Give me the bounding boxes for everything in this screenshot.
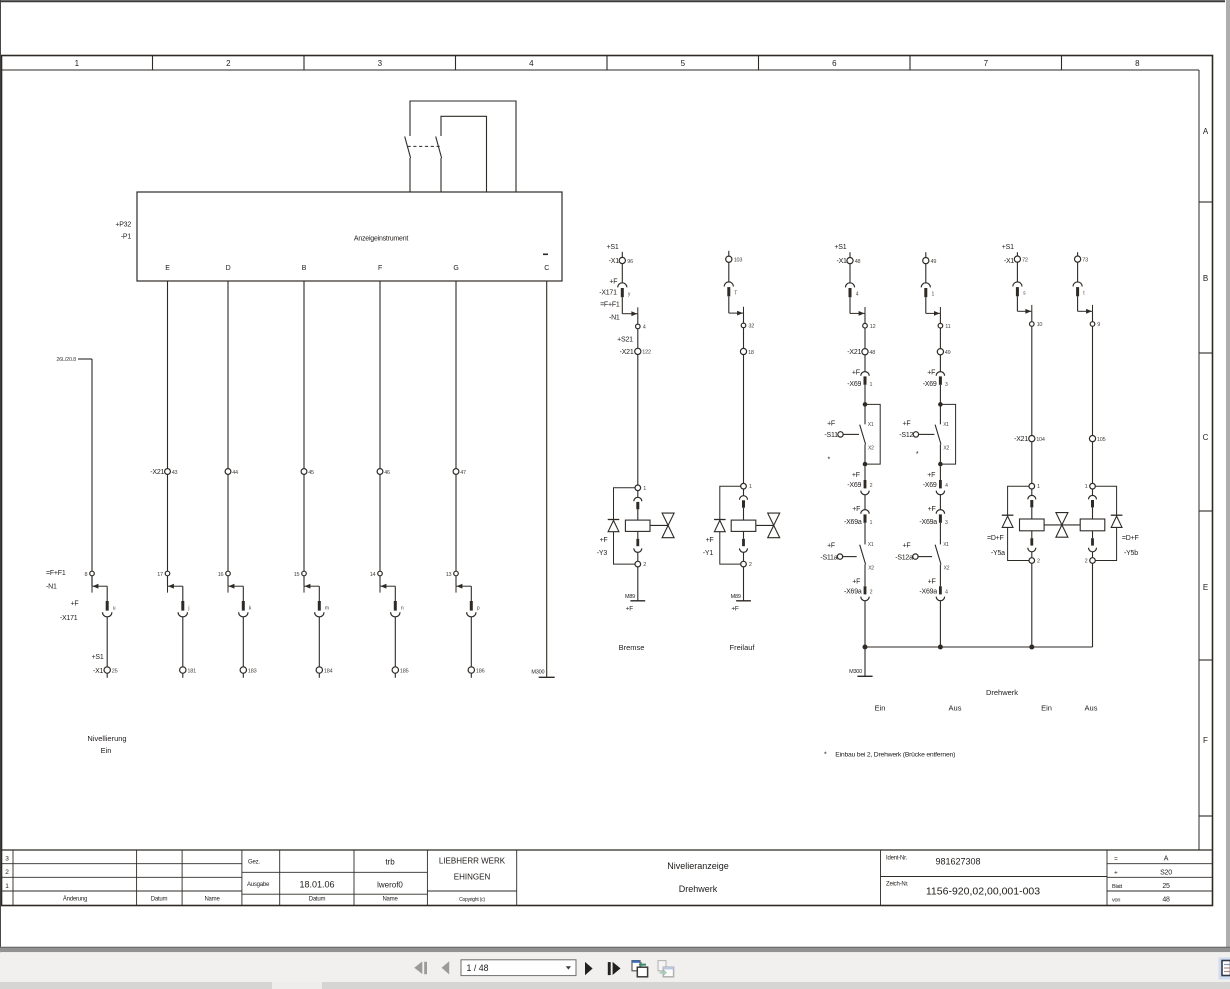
svg-text:trb: trb bbox=[385, 858, 395, 867]
coil connector bottom -Y5b bbox=[1089, 531, 1097, 558]
svg-text:+F: +F bbox=[902, 420, 910, 427]
nav last-page button bbox=[608, 962, 621, 975]
svg-text:-Y1: -Y1 bbox=[703, 550, 714, 557]
svg-text:G: G bbox=[453, 265, 458, 272]
node circle 14 bbox=[370, 571, 383, 578]
wire junction to contact -S11 bbox=[864, 404, 866, 424]
terminal -X1:181 bbox=[180, 667, 196, 675]
connector -X69 pin 2 bbox=[861, 480, 869, 495]
terminal -X1:72 bbox=[1014, 256, 1028, 264]
label +S1 -X1 column -Y5a bbox=[1002, 244, 1015, 265]
svg-text:103: 103 bbox=[734, 258, 743, 264]
diode branch wire Freilauf bbox=[720, 486, 741, 564]
wire instrument C to M300 bbox=[546, 281, 548, 677]
label +F -Y1 bbox=[703, 537, 714, 557]
svg-text:=: = bbox=[1114, 856, 1118, 863]
wire jog arrow column -Y5b bbox=[1078, 305, 1093, 314]
connector -X171 pin y Bremse bbox=[618, 283, 627, 297]
svg-text:+F: +F bbox=[902, 543, 910, 550]
svg-text:1 / 48: 1 / 48 bbox=[467, 963, 489, 973]
wire connector to junction -S12 bbox=[939, 385, 941, 403]
svg-text:3: 3 bbox=[5, 856, 9, 863]
svg-text:2: 2 bbox=[643, 562, 646, 568]
wire from instrument to terminal -X21:47 bbox=[455, 281, 457, 469]
svg-text:+F: +F bbox=[927, 370, 935, 377]
svg-text:-N1: -N1 bbox=[609, 315, 620, 322]
wire terminal 105 to coil 1 bbox=[1092, 442, 1094, 484]
svg-text:-X21: -X21 bbox=[1014, 436, 1028, 443]
svg-text:13: 13 bbox=[446, 572, 452, 578]
svg-text:-P1: -P1 bbox=[121, 234, 132, 241]
wire terminal 49 to connector bbox=[925, 264, 927, 283]
svg-text:=D+F: =D+F bbox=[1122, 535, 1139, 542]
wire jog to node 9 bbox=[1092, 311, 1094, 322]
wire coil 2 to rail -Y5a bbox=[1031, 563, 1033, 647]
svg-text:3: 3 bbox=[378, 59, 383, 68]
label +F -X69 lower -S11 bbox=[847, 472, 861, 489]
svg-text:96: 96 bbox=[627, 259, 633, 265]
wire from instrument to terminal -X21:44 bbox=[227, 281, 229, 469]
row labels A B C E F bbox=[1203, 127, 1209, 745]
svg-text:Ausgabe: Ausgabe bbox=[247, 882, 270, 888]
junction dot rail S12a bbox=[938, 645, 943, 650]
connector -X69 pin 1 bbox=[861, 372, 869, 385]
wire jog to connector -X171:m bbox=[318, 586, 320, 601]
right subtable = A bbox=[1114, 856, 1169, 863]
svg-text:18.01.06: 18.01.06 bbox=[299, 880, 334, 890]
svg-text:Gez.: Gez. bbox=[248, 860, 260, 866]
svg-text:u: u bbox=[113, 606, 116, 612]
svg-text:-X1: -X1 bbox=[609, 258, 620, 265]
page number combo box bbox=[461, 960, 576, 976]
svg-text:-Y3: -Y3 bbox=[597, 550, 608, 557]
previous-view icon bbox=[632, 960, 648, 976]
nav first-page button bbox=[414, 961, 427, 974]
right subtable Blatt 25 bbox=[1112, 883, 1170, 890]
connector -X69a pin 3 bbox=[936, 510, 944, 523]
diode V3 Bremse bbox=[608, 520, 620, 532]
common rail wire Drehwerk bbox=[865, 646, 1093, 648]
svg-text:8: 8 bbox=[85, 572, 88, 578]
ground M89 Bremse bbox=[625, 594, 645, 612]
connector -X171 pin k bbox=[239, 601, 248, 617]
svg-text:Änderung: Änderung bbox=[63, 896, 87, 903]
svg-text:183: 183 bbox=[248, 669, 257, 675]
valve symbol Freilauf bbox=[768, 513, 780, 538]
label +F -X171 Bremse bbox=[599, 278, 617, 296]
svg-text:1: 1 bbox=[1085, 484, 1088, 490]
svg-text:32: 32 bbox=[748, 324, 754, 330]
ground M89 Freilauf bbox=[731, 594, 751, 612]
svg-text:Ein: Ein bbox=[1041, 703, 1052, 712]
svg-text:-S11: -S11 bbox=[824, 432, 838, 439]
svg-text:105: 105 bbox=[1097, 437, 1106, 443]
wire node 4 to -X21:122 bbox=[637, 329, 639, 349]
diode V -Y5a bbox=[1002, 515, 1014, 527]
svg-text:X1: X1 bbox=[943, 422, 949, 428]
svg-text:186: 186 bbox=[476, 669, 485, 675]
wire node 15 to jog bbox=[303, 576, 305, 586]
svg-text:Nivelieranzeige: Nivelieranzeige bbox=[667, 861, 729, 871]
connector -X171 pin s column -Y5a bbox=[1013, 282, 1022, 296]
svg-text:17: 17 bbox=[157, 572, 163, 578]
node circle 1 -Y5b bbox=[1085, 483, 1096, 490]
svg-text:p: p bbox=[477, 606, 480, 612]
svg-text:48: 48 bbox=[855, 259, 861, 265]
svg-text:j: j bbox=[187, 606, 189, 612]
node circle 2 Freilauf bbox=[741, 561, 752, 568]
svg-text:A: A bbox=[1164, 856, 1169, 863]
svg-text:12: 12 bbox=[870, 324, 876, 330]
wire stub above -X1:103 bbox=[728, 251, 730, 256]
svg-text:72: 72 bbox=[1022, 258, 1028, 264]
svg-text:14: 14 bbox=[370, 572, 376, 578]
svg-text:=F+F1: =F+F1 bbox=[46, 570, 66, 577]
terminal -X21:46 bbox=[377, 469, 390, 476]
left window border line bbox=[0, 0, 2, 989]
connector -X171 pin 1 column -S12 bbox=[921, 283, 930, 297]
valve symbol Drehwerk bbox=[1056, 513, 1068, 538]
switch contact -S12a bbox=[935, 545, 941, 565]
wire -X1:103 to connector -X171:T bbox=[728, 262, 730, 282]
svg-text:2: 2 bbox=[1037, 559, 1040, 565]
wire jog to connector -X171:p bbox=[470, 586, 472, 601]
svg-text:=F+F1: =F+F1 bbox=[600, 302, 620, 309]
svg-text:25: 25 bbox=[1162, 883, 1170, 890]
connector -X69 pin 4 bbox=[936, 480, 944, 495]
wire to connector -X69a:3 bbox=[939, 495, 941, 510]
wire connector to terminal -X1:181 bbox=[182, 617, 184, 667]
svg-text:E: E bbox=[1203, 583, 1208, 592]
wire connector to junction -S11 bbox=[864, 385, 866, 403]
junction dot upper -S12 bbox=[938, 402, 943, 407]
svg-text:+S1: +S1 bbox=[834, 244, 846, 251]
svg-text:Datum: Datum bbox=[309, 897, 326, 903]
wire jog arrow column -S11 bbox=[850, 307, 865, 316]
title block headers Aenderung Datum Name bbox=[63, 896, 221, 903]
diode V -Y5b bbox=[1111, 515, 1123, 527]
svg-text:Zeich-Nr.: Zeich-Nr. bbox=[886, 882, 909, 888]
svg-text:-X21: -X21 bbox=[847, 349, 861, 356]
junction dot lower -S11 bbox=[863, 462, 868, 467]
svg-text:104: 104 bbox=[1036, 437, 1045, 443]
wire jog to node 32 bbox=[743, 313, 745, 323]
terminal -X1:49 bbox=[923, 258, 937, 266]
svg-text:+F: +F bbox=[852, 578, 860, 585]
coil connector top Freilauf bbox=[740, 489, 748, 520]
wire coil to valve Bremse bbox=[650, 524, 668, 526]
terminal -X1:25 bbox=[104, 667, 118, 675]
coil connector top -Y5a bbox=[1028, 489, 1036, 519]
right subtable + S20 bbox=[1114, 870, 1172, 877]
node circle 2 -Y5a bbox=[1029, 558, 1040, 565]
svg-text:1: 1 bbox=[5, 883, 9, 890]
terminal -X21:18 bbox=[740, 348, 754, 355]
label +F -X69a upper -S11a bbox=[844, 506, 862, 526]
svg-text:4: 4 bbox=[529, 59, 534, 68]
wire terminal 18 to coil Freilauf bbox=[743, 355, 745, 484]
svg-text:181: 181 bbox=[187, 669, 196, 675]
wire junction to contact -S12 bbox=[939, 404, 941, 424]
terminal -X1:73 bbox=[1075, 256, 1089, 264]
wire stub below -X1:183 bbox=[242, 673, 244, 678]
wire contact to connector -X69a:2 bbox=[864, 564, 866, 586]
svg-text:8: 8 bbox=[1135, 59, 1140, 68]
wire connector to jog column -Y5a bbox=[1016, 296, 1018, 311]
svg-text:+F: +F bbox=[927, 472, 935, 479]
wire -X21:46 to node 14 bbox=[379, 474, 381, 571]
svg-text:+S1: +S1 bbox=[92, 654, 104, 661]
instrument U1 Anzeigeinstrument box bbox=[137, 192, 562, 281]
title block Gez Ausgabe labels bbox=[247, 860, 270, 889]
switch contact S-b above instrument bbox=[436, 137, 442, 193]
svg-text:-X69: -X69 bbox=[847, 482, 861, 489]
wire connector to jog Freilauf bbox=[728, 296, 730, 313]
svg-text:F: F bbox=[378, 265, 382, 272]
wire stub above -X1:96 bbox=[621, 252, 623, 257]
terminal -X21:104 bbox=[1029, 436, 1045, 444]
switch contact S-a above instrument bbox=[405, 137, 411, 193]
svg-text:+S1: +S1 bbox=[607, 244, 619, 251]
svg-text:Aus: Aus bbox=[1085, 703, 1098, 712]
svg-text:Blatt: Blatt bbox=[1112, 884, 1123, 890]
label =D+F -Y5a bbox=[987, 535, 1005, 557]
viewer right scrollbar strip bbox=[1226, 0, 1230, 950]
wire node 12 to terminal -X21:48 bbox=[864, 328, 866, 349]
svg-text:-X171: -X171 bbox=[60, 615, 78, 622]
svg-text:M300: M300 bbox=[849, 669, 862, 675]
svg-text:-X21: -X21 bbox=[150, 469, 164, 476]
svg-text:+F: +F bbox=[852, 506, 860, 513]
wire terminal to connector -X69:3 bbox=[939, 355, 941, 372]
diode branch wire -Y5b bbox=[1095, 486, 1116, 560]
svg-text:-X21: -X21 bbox=[620, 349, 634, 356]
wire node 8 to jog bbox=[91, 576, 93, 586]
wire connector to terminal -X1:186 bbox=[470, 617, 472, 667]
svg-text:185: 185 bbox=[400, 669, 409, 675]
wire connector to jog Bremse bbox=[621, 297, 623, 314]
switch contact -S12 bbox=[935, 425, 941, 445]
switch contact -S11a bbox=[860, 545, 866, 565]
next-view icon greyed bbox=[658, 961, 674, 977]
wire stub below -X1:186 bbox=[470, 673, 472, 678]
node circle 17 bbox=[157, 571, 170, 578]
svg-text:49: 49 bbox=[931, 259, 937, 265]
svg-text:2: 2 bbox=[749, 562, 752, 568]
bottom right page icon bbox=[1219, 958, 1230, 980]
wire stub below -X1:185 bbox=[394, 673, 396, 678]
valve coil -Y5a bbox=[1020, 519, 1045, 531]
svg-text:C: C bbox=[1203, 433, 1209, 442]
svg-text:lwerof0: lwerof0 bbox=[377, 881, 403, 890]
wire to common rail -S11 bbox=[864, 601, 866, 647]
svg-text:981627308: 981627308 bbox=[935, 857, 980, 867]
svg-text:Name: Name bbox=[382, 897, 398, 903]
svg-text:LIEBHERR WERK: LIEBHERR WERK bbox=[439, 857, 506, 866]
svg-text:+S1: +S1 bbox=[1002, 244, 1014, 251]
wire jog to node 4 bbox=[637, 314, 639, 325]
ground M300 right bbox=[849, 669, 872, 676]
svg-text:-X69a: -X69a bbox=[844, 519, 862, 526]
svg-text:M89: M89 bbox=[625, 594, 635, 600]
coil connector top Bremse bbox=[634, 491, 642, 520]
svg-text:3: 3 bbox=[945, 520, 948, 526]
svg-text:Bremse: Bremse bbox=[619, 643, 645, 652]
svg-text:25: 25 bbox=[112, 669, 118, 675]
svg-text:+F: +F bbox=[928, 506, 936, 513]
minus polarity mark above C bbox=[543, 254, 548, 256]
wire coil to valve Freilauf bbox=[756, 524, 773, 526]
svg-text:+F: +F bbox=[852, 472, 860, 479]
connector -X171 pin p bbox=[467, 601, 476, 617]
junction dot upper -S11 bbox=[863, 402, 868, 407]
wire terminal to connector -X69:1 bbox=[864, 355, 866, 372]
terminal -X21:44 bbox=[225, 469, 238, 476]
wire 26L/20.8 feed bbox=[78, 359, 92, 586]
terminal -X21:48 bbox=[862, 349, 875, 356]
diode V1 Freilauf bbox=[714, 520, 726, 532]
label +F -Y3 bbox=[597, 537, 608, 557]
svg-text:-X171: -X171 bbox=[599, 290, 617, 297]
svg-text:2: 2 bbox=[870, 483, 873, 489]
terminal -X1:185 bbox=[392, 667, 408, 675]
svg-text:2: 2 bbox=[870, 590, 873, 596]
instrument terminal letters E D B F G C bbox=[165, 265, 549, 272]
connector -X171 pin m bbox=[315, 601, 324, 617]
svg-text:45: 45 bbox=[308, 470, 314, 476]
svg-text:10: 10 bbox=[1037, 322, 1043, 328]
svg-text:X2: X2 bbox=[868, 445, 874, 451]
junction dot rail S11a bbox=[863, 645, 868, 650]
coil connector bottom Bremse bbox=[634, 531, 642, 561]
label =F+F1 -N1 Bremse bbox=[600, 302, 620, 322]
svg-text:Ident-Nr.: Ident-Nr. bbox=[886, 856, 908, 862]
label +S1 -X1 Bremse bbox=[607, 244, 620, 265]
svg-text:46: 46 bbox=[384, 470, 390, 476]
svg-text:-X69: -X69 bbox=[923, 482, 937, 489]
terminal -X1:186 bbox=[468, 667, 484, 675]
svg-text:X2: X2 bbox=[943, 445, 949, 451]
title block grid bbox=[2, 850, 1213, 906]
label +S1 -X1 column -S11 bbox=[834, 244, 847, 265]
terminal -X1:96 bbox=[619, 257, 633, 265]
svg-text:6: 6 bbox=[832, 59, 837, 68]
wire junction to connector -X69:2 bbox=[864, 466, 866, 480]
svg-text:-Y5b: -Y5b bbox=[1124, 550, 1138, 557]
wire jog arrow column -S12 bbox=[926, 307, 941, 316]
svg-text:48: 48 bbox=[869, 350, 875, 356]
svg-text:T: T bbox=[734, 290, 737, 296]
svg-text:49: 49 bbox=[945, 350, 951, 356]
svg-text:-X1: -X1 bbox=[836, 258, 847, 265]
svg-text:5: 5 bbox=[681, 59, 686, 68]
svg-text:48: 48 bbox=[1162, 897, 1170, 904]
wire jog to node 10 bbox=[1031, 311, 1033, 322]
terminal -X21:105 bbox=[1089, 436, 1105, 444]
svg-text:+F: +F bbox=[600, 537, 608, 544]
svg-text:+P32: +P32 bbox=[115, 222, 131, 229]
wire terminal 48 to connector bbox=[849, 264, 851, 283]
wire jog to connector -X171:n bbox=[394, 586, 396, 601]
svg-text:A: A bbox=[1203, 127, 1209, 136]
wire jog arrow column 45 bbox=[304, 584, 319, 593]
switch contact -S11 bbox=[860, 425, 866, 445]
svg-text:3: 3 bbox=[945, 382, 948, 388]
node circle 1 Freilauf bbox=[741, 483, 752, 490]
wire terminal 104 to coil 1 bbox=[1031, 442, 1033, 484]
wire node 16 to jog bbox=[227, 576, 229, 586]
svg-text:-X1: -X1 bbox=[93, 668, 104, 675]
wire jog arrow column 46 bbox=[380, 584, 395, 593]
svg-text:X1: X1 bbox=[943, 542, 949, 548]
svg-text:+S21: +S21 bbox=[617, 336, 633, 343]
wire connector to terminal -X1:184 bbox=[318, 617, 320, 667]
nav next-page button bbox=[585, 962, 593, 975]
svg-text:+F: +F bbox=[71, 600, 79, 607]
svg-text:73: 73 bbox=[1082, 258, 1088, 264]
toolbar background bbox=[0, 952, 1230, 982]
svg-text:n: n bbox=[401, 606, 404, 612]
label =D+F -Y5b bbox=[1122, 535, 1139, 557]
label +F -X69a lower -S11a bbox=[844, 578, 862, 595]
svg-text:-X69: -X69 bbox=[847, 381, 861, 388]
label +F -X69 lower -S12 bbox=[923, 472, 937, 489]
actuator button -S11 bbox=[838, 432, 859, 437]
svg-text:EHINGEN: EHINGEN bbox=[454, 873, 491, 882]
taskbar bottom strip bbox=[0, 982, 1230, 989]
node circle 13 bbox=[446, 571, 459, 578]
revision numbers 3 2 1 bbox=[5, 856, 9, 891]
footnote Einbau bei 2 Drehwerk bbox=[824, 751, 955, 758]
wire jog to connector -X171:j bbox=[182, 586, 184, 601]
wire -X1:96 to connector -X171:y bbox=[621, 264, 623, 283]
Ident-Nr label and value bbox=[886, 856, 981, 867]
instrument designator +P32 -P1 bbox=[115, 222, 131, 241]
wire stub below -X1:181 bbox=[182, 673, 184, 678]
svg-text:Name: Name bbox=[204, 897, 220, 903]
row label dividers bbox=[1199, 202, 1213, 816]
svg-text:-X69: -X69 bbox=[923, 381, 937, 388]
svg-text:4: 4 bbox=[856, 291, 859, 297]
terminal -X1:183 bbox=[240, 667, 256, 675]
wire jog to node 11 bbox=[939, 313, 941, 323]
wire -X21:122 to valve coil 1 bbox=[637, 355, 639, 485]
node circle 8 bbox=[85, 571, 95, 578]
wire node 11 to terminal -X21:49 bbox=[939, 328, 941, 349]
svg-text:E: E bbox=[165, 265, 170, 272]
svg-text:7: 7 bbox=[984, 59, 989, 68]
terminal -X1:103 bbox=[726, 256, 743, 264]
wire jog arrow column 43 bbox=[168, 584, 183, 593]
coil connector bottom Freilauf bbox=[740, 531, 748, 561]
wire to connector -X69a:1 bbox=[864, 495, 866, 510]
label +F -X69a upper -S12a bbox=[919, 506, 937, 526]
node circle 9 bbox=[1090, 322, 1100, 328]
wire jog arrow column 44 bbox=[228, 584, 243, 593]
svg-text:11: 11 bbox=[945, 324, 950, 330]
valve coil -Y3 bbox=[625, 520, 650, 531]
wire connector to terminal -X1:183 bbox=[242, 617, 244, 667]
svg-text:2: 2 bbox=[5, 869, 9, 876]
connector -X171 pin T Freilauf bbox=[724, 282, 733, 296]
svg-text:+F: +F bbox=[706, 537, 714, 544]
inner frame right border bbox=[1198, 70, 1200, 850]
junction dot lower -S12 bbox=[938, 462, 943, 467]
wire jog to node 12 bbox=[864, 313, 866, 323]
svg-text:-X69a: -X69a bbox=[844, 589, 862, 596]
svg-text:+F: +F bbox=[626, 605, 634, 612]
svg-text:1: 1 bbox=[870, 520, 873, 526]
